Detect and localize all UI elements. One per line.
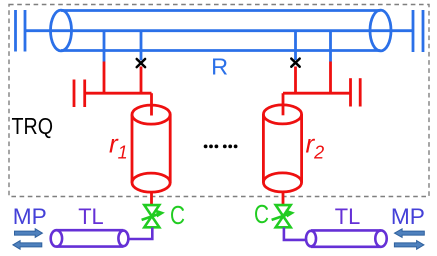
- svg-text:TRQ: TRQ: [12, 113, 54, 139]
- svg-text:MP: MP: [391, 204, 425, 229]
- svg-text:R: R: [211, 53, 228, 79]
- svg-text:MP: MP: [13, 204, 47, 229]
- svg-text:C: C: [170, 200, 185, 230]
- svg-text:TL: TL: [78, 204, 104, 229]
- svg-text:TL: TL: [335, 204, 361, 229]
- svg-text:C: C: [254, 199, 269, 229]
